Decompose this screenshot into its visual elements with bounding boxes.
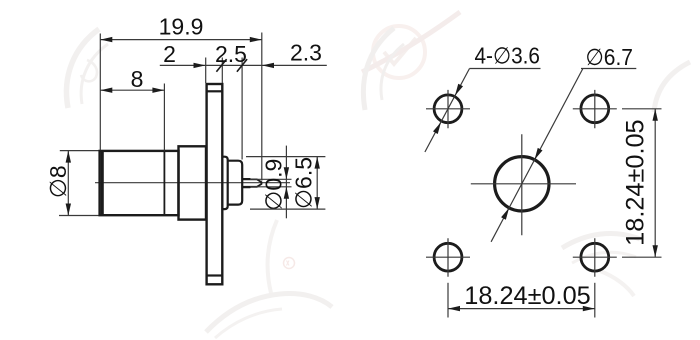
right dim arrow down — [653, 245, 658, 257]
bottom dim arrow left — [448, 306, 460, 311]
flange plate — [207, 84, 223, 284]
watermark swirl right-center — [562, 233, 640, 296]
watermark ring top-center — [362, 12, 460, 78]
leader line 4-dia3.6 — [425, 69, 470, 153]
hole top-right — [581, 95, 609, 123]
arrow at flange left pointing right — [194, 63, 206, 68]
shoulder ring — [179, 146, 207, 219]
center hole dia6.7 — [495, 157, 549, 211]
watermark arcs top-left — [66, 29, 108, 108]
svg-text:2: 2 — [163, 41, 176, 67]
center pin — [242, 179, 261, 186]
bottom dim arrow right — [583, 306, 595, 311]
right dimension line — [654, 109, 656, 257]
hole bottom-left — [434, 243, 462, 271]
watermark arcs between views — [363, 28, 404, 110]
hole bottom-right — [581, 243, 609, 271]
interface ring — [222, 157, 227, 209]
dia0.9 bottom extension — [250, 186, 292, 188]
flange top inner line — [207, 90, 222, 92]
crosshair bottom-right hole — [573, 238, 617, 276]
watermark swirl bottom-center — [206, 220, 332, 338]
svg-text:19.9: 19.9 — [159, 14, 204, 40]
dia6.5 bottom extension — [250, 208, 325, 210]
dimension 8 line — [100, 89, 164, 91]
crosshair center hole — [471, 134, 576, 235]
svg-text:4-∅3.6: 4-∅3.6 — [475, 43, 541, 69]
leader line dia6.7 — [491, 69, 583, 242]
dia8 arrow down — [66, 204, 71, 216]
bottom dim right extension — [594, 283, 596, 318]
watermark arc top-right — [654, 62, 690, 112]
extension line left (x=100.3) — [99, 34, 101, 151]
flange bottom inner line — [207, 274, 222, 276]
hole top-left — [434, 95, 462, 123]
insulator — [228, 161, 243, 205]
svg-text:2.3: 2.3 — [290, 40, 322, 66]
extension line flange left (x=205.7) — [205, 58, 207, 84]
svg-text:∅8: ∅8 — [45, 165, 71, 198]
svg-text:∅0.9: ∅0.9 — [261, 159, 287, 211]
arrow 8 right — [152, 88, 164, 93]
crosshair top-left hole — [426, 90, 470, 128]
dimension 19.9 line — [100, 39, 261, 41]
arrow on center circle bottom-left — [501, 207, 511, 220]
dia0.9 top extension — [250, 178, 292, 180]
dia0.9 arrow up to pin — [284, 187, 289, 199]
crosshair top-right hole — [573, 90, 617, 128]
dia8 top extension — [60, 150, 99, 152]
arrow 19.9 right — [250, 37, 262, 42]
dia6.5 arrow down — [315, 197, 320, 209]
underline dia6.7 — [581, 68, 636, 70]
svg-text:2.5: 2.5 — [215, 41, 247, 67]
dia8 arrow up — [66, 151, 71, 163]
dia8 dimension line — [67, 151, 69, 216]
centerline — [95, 182, 290, 184]
underline 4-dia3.6 — [470, 68, 541, 70]
arrow 19.9 left — [100, 37, 112, 42]
extension line insulator right (x=242.1) — [241, 58, 243, 160]
body step line at 8mm — [163, 151, 165, 215]
dia6.5 dimension line — [316, 157, 318, 210]
body left inner chamfer line — [101, 151, 104, 215]
dia8 bottom extension — [59, 215, 99, 217]
dia0.9 dimension line — [285, 146, 287, 219]
svg-text:18.24±0.05: 18.24±0.05 — [622, 119, 650, 245]
svg-text:∅6.7: ∅6.7 — [586, 44, 634, 70]
right dim bottom extension — [622, 256, 662, 258]
arrow 8 left — [100, 88, 112, 93]
dia6.5 arrow up — [315, 157, 320, 169]
extension line flange right (x=222.3) — [221, 58, 223, 84]
svg-text:8: 8 — [131, 66, 144, 92]
right dim top extension — [622, 108, 662, 110]
connector body outline — [100, 151, 179, 215]
right dim arrow up — [653, 109, 658, 121]
bottom dimension line — [448, 308, 595, 310]
pin base collar — [243, 179, 250, 188]
arrow at pin tip pointing left — [262, 63, 274, 68]
dia0.9 arrow down to pin — [284, 167, 289, 179]
arrow on center circle top-right — [532, 148, 542, 161]
svg-text:18.24±0.05: 18.24±0.05 — [464, 282, 590, 310]
dia6.5 top extension — [246, 156, 325, 158]
bottom dim left extension — [447, 283, 449, 318]
crosshair bottom-left hole — [426, 238, 470, 276]
extension line 8mm step (x=164.4) — [163, 84, 165, 151]
arrow on hole top-right — [453, 84, 463, 97]
tick at flange right — [216, 59, 226, 72]
arrow on hole bottom-left — [433, 121, 443, 134]
tick at insulator right — [237, 59, 247, 72]
svg-text:∅6.5: ∅6.5 — [291, 157, 317, 209]
extension line pin tip (x=261.8) — [261, 33, 263, 181]
dimension chain 2 / 2.5 / 2.3 line — [160, 64, 327, 66]
